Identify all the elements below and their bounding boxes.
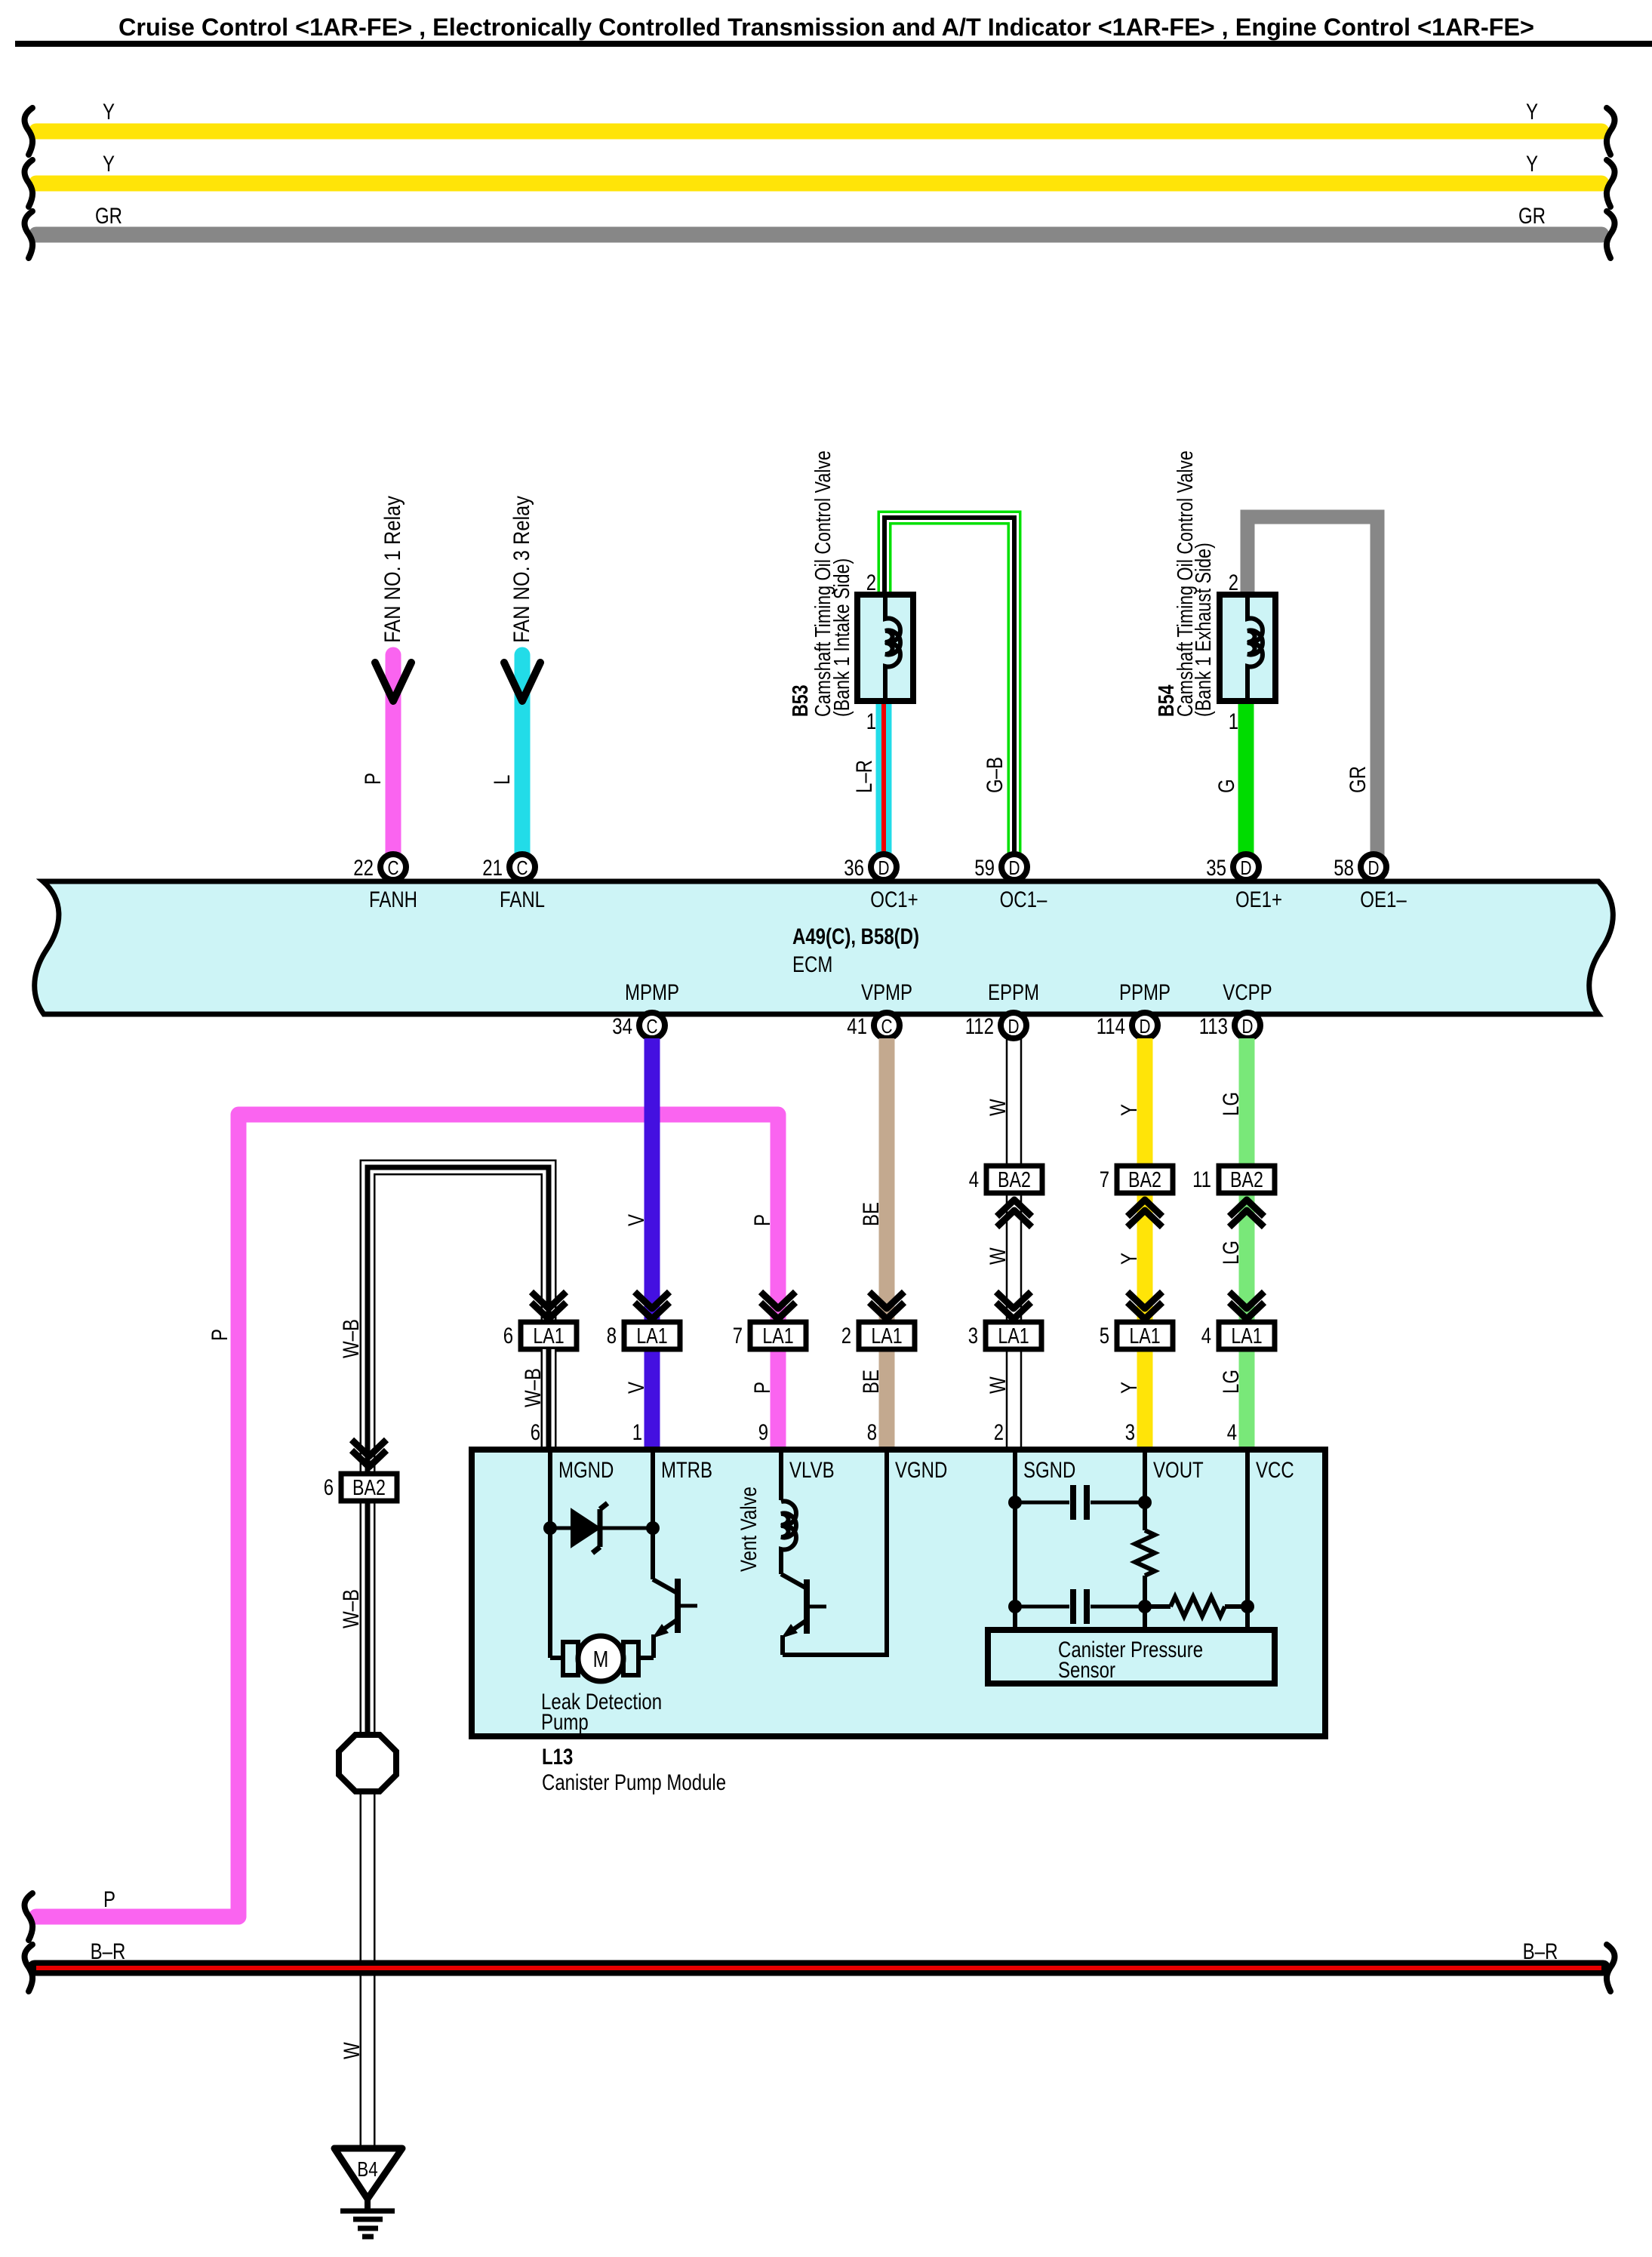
wire label W mid [986, 1247, 1011, 1265]
svg-text:BA2: BA2 [352, 1476, 386, 1500]
svg-text:W: W [340, 2042, 365, 2059]
svg-text:W: W [986, 1247, 1011, 1265]
svg-text:36: 36 [844, 856, 864, 881]
svg-text:114: 114 [1097, 1014, 1125, 1039]
connector brace left GR [24, 211, 32, 258]
wire GR top [36, 227, 1601, 243]
svg-text:VGND: VGND [895, 1458, 947, 1483]
svg-text:GR: GR [95, 204, 122, 229]
wire Y PPMP vertical [1137, 1038, 1153, 1450]
svg-text:OE1–: OE1– [1360, 887, 1407, 912]
svg-text:BA2: BA2 [1128, 1168, 1161, 1192]
svg-text:Y: Y [1526, 100, 1538, 125]
svg-text:Cruise Control <1AR-FE> , Elec: Cruise Control <1AR-FE> , Electronically… [118, 14, 1534, 41]
svg-text:4: 4 [969, 1167, 979, 1192]
node label P bottom [103, 1887, 115, 1912]
svg-text:W: W [986, 1099, 1011, 1116]
wire P MPMP loop (horizontal + verticals) [36, 1115, 778, 1917]
connector 11 BA2 [1192, 1166, 1275, 1227]
canister pump module L13 box [472, 1450, 1325, 1736]
svg-text:FAN NO. 1 Relay: FAN NO. 1 Relay [380, 496, 405, 643]
label Camshaft Timing Oil Control Valve (B54) [1174, 450, 1198, 717]
ground bar 3 [358, 2226, 378, 2231]
terminal number 2 SGND [994, 1420, 1004, 1445]
VLVB internal line [779, 1450, 783, 1500]
wire label W-B upper loop [339, 1319, 364, 1358]
svg-text:Sensor: Sensor [1058, 1658, 1115, 1683]
svg-text:P: P [208, 1329, 232, 1341]
terminal label MGND [558, 1458, 614, 1483]
svg-text:6: 6 [503, 1324, 513, 1348]
ground bar 1 [340, 2209, 395, 2214]
arrow on FANH wire [375, 663, 411, 701]
connector 7 BA2 [1100, 1166, 1173, 1227]
svg-text:3: 3 [968, 1324, 978, 1348]
svg-text:A49(C), B58(D): A49(C), B58(D) [792, 924, 919, 949]
svg-text:4: 4 [1227, 1420, 1237, 1445]
wire B-R bottom [35, 1960, 1603, 1976]
pin 114 D PPMP [1097, 980, 1171, 1039]
svg-text:D: D [1008, 1015, 1020, 1038]
connector brace right GR [1607, 211, 1615, 258]
svg-text:D: D [1368, 856, 1380, 879]
node label B-R right [1523, 1939, 1558, 1964]
svg-text:8: 8 [867, 1420, 877, 1445]
terminal label VOUT [1153, 1458, 1204, 1483]
svg-text:Canister Pump Module: Canister Pump Module [542, 1770, 726, 1795]
terminal number 3 VOUT [1125, 1420, 1135, 1445]
pin 36 D OC1+ [844, 854, 918, 912]
wire L to FAN NO.3 relay [515, 655, 531, 856]
junction dot VOUT top [1138, 1496, 1152, 1509]
svg-text:9: 9 [758, 1420, 768, 1445]
connector 8 LA1 [607, 1292, 680, 1349]
label Vent Valve [737, 1487, 761, 1572]
svg-text:OC1–: OC1– [1000, 887, 1047, 912]
wire BE VPMP to VGND [879, 1038, 895, 1450]
wire label W lower [986, 1376, 1011, 1394]
svg-text:BE: BE [859, 1202, 884, 1226]
connector brace right Y1 [1607, 108, 1615, 155]
svg-text:Y: Y [1117, 1253, 1142, 1265]
svg-text:P: P [361, 773, 386, 785]
connector brace left Y1 [24, 108, 32, 155]
node label Y left1 [103, 100, 115, 125]
node label GR right [1518, 204, 1546, 229]
pin 1 label B53 [866, 709, 876, 734]
wire label LG mid [1219, 1241, 1244, 1265]
terminal label MTRB [661, 1458, 712, 1483]
solenoid valve B53 box [857, 595, 913, 701]
wire label P on left vertical [208, 1329, 232, 1341]
svg-text:Y: Y [103, 100, 115, 125]
svg-text:D: D [1140, 1015, 1151, 1038]
svg-text:G–B: G–B [983, 757, 1008, 793]
terminal number 9 VLVB [758, 1420, 768, 1445]
svg-text:L: L [490, 775, 515, 785]
ground bar 4 [362, 2234, 374, 2240]
svg-text:LG: LG [1219, 1092, 1244, 1116]
connector brace right Y2 [1607, 160, 1615, 207]
svg-text:LA1: LA1 [1231, 1324, 1262, 1348]
connector 5 LA1 [1100, 1292, 1173, 1349]
label FAN NO. 1 Relay [380, 496, 405, 643]
svg-text:ECM: ECM [792, 952, 832, 977]
title [118, 14, 1534, 41]
connector 4 BA2 [969, 1166, 1042, 1227]
wire label L-R [852, 760, 877, 793]
ground stem [365, 2199, 371, 2211]
svg-text:8: 8 [607, 1324, 617, 1348]
wire GR from B54 pin2 to ECM pin 58 [1247, 517, 1377, 856]
connector 3 LA1 [968, 1292, 1041, 1349]
transistor Q1 (pump driver) [641, 1579, 697, 1658]
wire label G [1214, 779, 1239, 793]
wire label W upper [986, 1099, 1011, 1116]
svg-text:VCPP: VCPP [1223, 980, 1272, 1005]
svg-text:B53: B53 [789, 684, 813, 717]
pin 34 C MPMP [612, 980, 679, 1039]
svg-text:W: W [986, 1376, 1011, 1394]
terminal label VLVB [789, 1458, 835, 1483]
wire W-B from BA2 down to noise filter [360, 1501, 376, 1737]
label Camshaft Timing Oil Control Valve (B53) [811, 450, 835, 717]
svg-text:P: P [750, 1214, 775, 1226]
capacitor C1 top [1015, 1485, 1145, 1520]
wire label P (FANH) [361, 773, 386, 785]
label Bank 1 Intake Side [830, 558, 854, 717]
svg-text:V: V [624, 1382, 649, 1394]
wire label BE lower [859, 1370, 884, 1394]
pin 35 D OE1+ [1206, 854, 1282, 912]
svg-text:21: 21 [482, 856, 503, 881]
svg-text:B–R: B–R [91, 1939, 126, 1964]
svg-text:LA1: LA1 [998, 1324, 1029, 1348]
capacitor C2 bottom [1015, 1589, 1145, 1624]
wire label W-B below BA2 [339, 1589, 364, 1628]
svg-text:Y: Y [1526, 152, 1538, 177]
pin 58 D OE1- [1334, 854, 1407, 912]
pin 2 label B53 [866, 570, 876, 595]
svg-text:LA1: LA1 [533, 1324, 564, 1348]
svg-text:112: 112 [965, 1014, 994, 1039]
wire W EPPM vertical [1007, 1038, 1021, 1450]
svg-text:VOUT: VOUT [1153, 1458, 1204, 1483]
svg-text:Y: Y [1117, 1382, 1142, 1394]
svg-text:V: V [624, 1214, 649, 1226]
pin 22 C FANH [353, 854, 417, 912]
wire label V lower [624, 1382, 649, 1394]
svg-text:4: 4 [1201, 1324, 1211, 1348]
wire label G-B [983, 757, 1008, 793]
ECM name text [792, 924, 919, 977]
terminal label VGND [895, 1458, 947, 1483]
svg-text:7: 7 [733, 1324, 743, 1348]
svg-text:W–B: W–B [339, 1589, 364, 1628]
svg-text:C: C [881, 1015, 893, 1038]
junction dot VCC [1241, 1600, 1254, 1613]
wire W-B loop from BA2 to LA1 [368, 1167, 549, 1474]
connector brace left Y2 [24, 160, 32, 207]
terminal label VCC [1256, 1458, 1294, 1483]
node label B-R left [91, 1939, 126, 1964]
pin 113 D VCPP [1199, 980, 1272, 1039]
coil inside B53 [885, 598, 900, 698]
svg-text:LA1: LA1 [762, 1324, 793, 1348]
connector brace left B-R [24, 1945, 32, 1991]
label B53 [789, 684, 813, 717]
node label Y left2 [103, 152, 115, 177]
svg-text:BA2: BA2 [1230, 1168, 1263, 1192]
connector brace left P [24, 1893, 32, 1940]
connector 4 LA1 [1201, 1292, 1275, 1349]
svg-text:VPMP: VPMP [861, 980, 912, 1005]
svg-text:LA1: LA1 [1129, 1324, 1160, 1348]
wire label GR (OE1-) [1346, 766, 1371, 793]
header rule [15, 41, 1652, 47]
label Leak Detection Pump [541, 1690, 662, 1735]
wire W-B from LA1 to module MGND [541, 1349, 557, 1450]
pin 59 D OC1- [974, 854, 1047, 912]
wire label W-B right loop [521, 1368, 546, 1407]
svg-text:MTRB: MTRB [661, 1458, 712, 1483]
VOUT line lower [1143, 1607, 1147, 1633]
svg-text:B4: B4 [357, 2157, 377, 2181]
wire P to FAN NO.1 relay [386, 655, 401, 856]
svg-text:(Bank 1 Exhaust Side): (Bank 1 Exhaust Side) [1192, 543, 1216, 717]
node label GR left [95, 204, 122, 229]
svg-text:11: 11 [1192, 1167, 1211, 1192]
svg-text:34: 34 [612, 1014, 632, 1039]
svg-text:MGND: MGND [558, 1458, 614, 1483]
svg-text:41: 41 [847, 1014, 867, 1039]
svg-text:1: 1 [1229, 709, 1238, 734]
vent valve coil [781, 1502, 796, 1557]
connector 6 BA2 [324, 1440, 397, 1501]
svg-text:1: 1 [632, 1420, 642, 1445]
label L13 [542, 1745, 726, 1795]
svg-text:VCC: VCC [1256, 1458, 1294, 1483]
wire Y top1 [36, 124, 1601, 140]
junction dot SGND top [1008, 1496, 1022, 1509]
wire label Y mid [1117, 1253, 1142, 1265]
wire Y top2 [36, 176, 1601, 192]
junction dot MGND-diode [543, 1521, 557, 1535]
ECM block A49(C) B58(D) [35, 881, 1614, 1014]
junction dot MTRB-diode [646, 1521, 660, 1535]
wire label P lower [750, 1382, 775, 1394]
transistor Q2 (vent valve driver) [781, 1557, 887, 1655]
wire W from noise filter to ground [360, 1788, 376, 2151]
canister pressure sensor box [988, 1630, 1275, 1684]
svg-text:GR: GR [1346, 766, 1371, 793]
svg-text:PPMP: PPMP [1119, 980, 1171, 1005]
svg-text:2: 2 [1229, 570, 1238, 595]
svg-text:W–B: W–B [339, 1319, 364, 1358]
solenoid valve B54 box [1220, 595, 1275, 701]
svg-text:LA1: LA1 [871, 1324, 902, 1348]
wire L-R from B53 pin1 to ECM pin 36 [876, 698, 892, 856]
MGND internal line [548, 1450, 552, 1658]
arrow on FANL wire [504, 663, 540, 701]
pin 41 C VPMP [847, 980, 912, 1039]
pin 112 D EPPM [965, 980, 1039, 1039]
svg-text:P: P [750, 1382, 775, 1394]
wire label W below octagon [340, 2042, 365, 2059]
connector 7 LA1 [733, 1292, 806, 1349]
svg-text:G: G [1214, 779, 1239, 793]
VOUT internal line upper [1143, 1450, 1147, 1530]
wire label Y upper [1117, 1104, 1142, 1116]
connector 2 LA1 [841, 1292, 915, 1349]
svg-text:22: 22 [353, 856, 374, 881]
svg-text:GR: GR [1518, 204, 1546, 229]
zener diode bus line [550, 1527, 653, 1530]
junction dot SGND bottom [1008, 1600, 1022, 1613]
svg-text:2: 2 [866, 570, 876, 595]
pin 21 C FANL [482, 854, 545, 912]
svg-text:L–R: L–R [852, 760, 877, 793]
svg-text:D: D [1242, 1015, 1254, 1038]
connector brace right B-R [1607, 1945, 1615, 1991]
svg-text:LA1: LA1 [636, 1324, 667, 1348]
resistor R1 vertical on VOUT [1135, 1502, 1155, 1607]
svg-text:7: 7 [1100, 1167, 1109, 1192]
svg-text:FAN NO. 3 Relay: FAN NO. 3 Relay [509, 496, 534, 643]
wire V MPMP to MTRB [644, 1038, 660, 1450]
wire label Y lower [1117, 1382, 1142, 1394]
svg-text:6: 6 [531, 1420, 540, 1445]
leak detection pump motor M [550, 1636, 638, 1681]
junction dot VOUT bottom [1138, 1600, 1152, 1613]
label B54 [1155, 684, 1179, 717]
SGND internal line [1013, 1450, 1017, 1633]
VGND internal line [884, 1450, 889, 1657]
zener diode D1 [571, 1503, 608, 1553]
svg-text:LG: LG [1219, 1241, 1244, 1265]
svg-text:BE: BE [859, 1370, 884, 1394]
svg-text:C: C [647, 1015, 658, 1038]
svg-text:2: 2 [994, 1420, 1004, 1445]
svg-text:58: 58 [1334, 856, 1354, 881]
terminal number 1 MTRB [632, 1420, 642, 1445]
wire label LG upper [1219, 1092, 1244, 1116]
node label Y right2 [1526, 152, 1538, 177]
svg-text:SGND: SGND [1023, 1458, 1075, 1483]
MTRB internal line [651, 1450, 655, 1579]
svg-text:5: 5 [1100, 1324, 1109, 1348]
wire label LG lower [1219, 1370, 1244, 1394]
label Bank 1 Exhaust Side [1192, 543, 1216, 717]
svg-text:B–R: B–R [1523, 1939, 1558, 1964]
wire LG VCPP vertical [1239, 1038, 1255, 1450]
svg-text:EPPM: EPPM [988, 980, 1039, 1005]
noise filter octagon [339, 1735, 396, 1791]
wire label V upper [624, 1214, 649, 1226]
svg-text:Y: Y [1117, 1104, 1142, 1116]
svg-text:1: 1 [866, 709, 876, 734]
svg-text:FANH: FANH [369, 887, 417, 912]
pin 1 label B54 [1229, 709, 1238, 734]
VCC internal line [1245, 1450, 1250, 1633]
svg-text:VLVB: VLVB [789, 1458, 835, 1483]
terminal number 8 VGND [867, 1420, 877, 1445]
svg-text:C: C [388, 856, 399, 879]
svg-text:FANL: FANL [500, 887, 545, 912]
ground B4 triangle [334, 2148, 402, 2199]
svg-text:Pump: Pump [541, 1710, 589, 1735]
terminal number 6 MGND [531, 1420, 540, 1445]
svg-text:BA2: BA2 [998, 1168, 1031, 1192]
svg-text:Y: Y [103, 152, 115, 177]
svg-text:113: 113 [1199, 1014, 1228, 1039]
terminal label SGND [1023, 1458, 1075, 1483]
svg-text:C: C [517, 856, 528, 879]
wire label BE upper [859, 1202, 884, 1226]
svg-text:MPMP: MPMP [625, 980, 679, 1005]
svg-text:P: P [103, 1887, 115, 1912]
svg-text:6: 6 [324, 1475, 334, 1500]
svg-text:(Bank 1 Intake Side): (Bank 1 Intake Side) [830, 558, 854, 717]
ground bar 2 [353, 2217, 383, 2222]
wire G from B54 pin1 to ECM pin 35 [1238, 698, 1254, 856]
svg-text:OC1+: OC1+ [870, 887, 918, 912]
svg-text:59: 59 [974, 856, 995, 881]
svg-text:D: D [1009, 856, 1020, 879]
svg-text:OE1+: OE1+ [1235, 887, 1282, 912]
node label Y right1 [1526, 100, 1538, 125]
svg-text:3: 3 [1125, 1420, 1135, 1445]
wire G-B from B53 pin2 to ECM pin 59 [884, 518, 1014, 856]
pin 2 label B54 [1229, 570, 1238, 595]
svg-text:LG: LG [1219, 1370, 1244, 1394]
connector 6 LA1 [503, 1292, 577, 1349]
coil inside B54 [1247, 598, 1263, 698]
svg-text:Vent Valve: Vent Valve [737, 1487, 761, 1572]
svg-text:D: D [1241, 856, 1252, 879]
svg-text:D: D [878, 856, 890, 879]
wire label L (FANL) [490, 775, 515, 785]
resistor R2 horizontal to VCC [1145, 1597, 1247, 1616]
svg-text:M: M [593, 1646, 609, 1672]
label FAN NO. 3 Relay [509, 496, 534, 643]
svg-text:L13: L13 [542, 1745, 573, 1770]
terminal number 4 VCC [1227, 1420, 1237, 1445]
wire label P upper [750, 1214, 775, 1226]
svg-text:2: 2 [841, 1324, 851, 1348]
svg-text:35: 35 [1206, 856, 1226, 881]
